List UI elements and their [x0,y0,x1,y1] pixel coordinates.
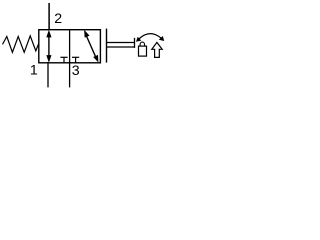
svg-text:3: 3 [72,63,80,79]
svg-text:2: 2 [54,11,62,27]
svg-text:1: 1 [30,63,38,79]
